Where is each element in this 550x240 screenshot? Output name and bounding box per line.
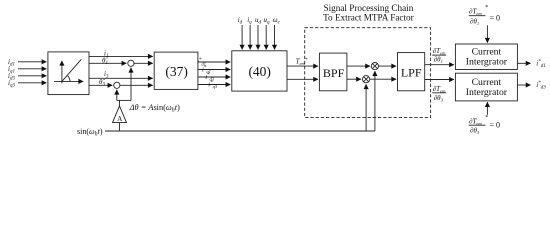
wire constraint top to CI1	[486, 25, 488, 42]
label i_d top	[238, 16, 243, 26]
svg-text:Intergrator: Intergrator	[466, 57, 508, 68]
label theta_hat_3	[99, 78, 105, 88]
svg-text:i*d1: i*d1	[536, 59, 545, 69]
summer B	[114, 82, 120, 88]
label i*_d3	[205, 73, 215, 81]
svg-text:∂θ3: ∂θ3	[470, 127, 480, 136]
block transformation U1	[48, 52, 89, 95]
wire L1 i_1	[89, 55, 153, 57]
svg-text:*: *	[485, 115, 488, 121]
wire L2 out	[134, 62, 153, 64]
wire L4 out	[120, 84, 153, 86]
icon slope line	[62, 59, 81, 81]
wire top in 1	[241, 25, 243, 50]
svg-text:∂Tem: ∂Tem	[433, 85, 446, 94]
svg-text:∂Tem: ∂Tem	[469, 118, 482, 127]
wire multB to LPF	[370, 78, 396, 80]
svg-text:BPF: BPF	[323, 66, 345, 80]
title line 1	[323, 3, 413, 13]
svg-text:∂Tem: ∂Tem	[433, 47, 446, 56]
icon angle arc	[68, 76, 70, 82]
svg-text:ud: ud	[255, 16, 262, 26]
label u_d top	[255, 16, 262, 26]
label i_1	[104, 49, 108, 59]
block (37)	[154, 52, 198, 89]
svg-text:Signal Processing Chain: Signal Processing Chain	[323, 3, 413, 13]
svg-text:ωe: ωe	[273, 16, 281, 26]
svg-text:θ̂3: θ̂3	[99, 78, 105, 88]
svg-text:Intergrator: Intergrator	[466, 87, 508, 98]
svg-text:id: id	[238, 16, 243, 26]
wire top in 5	[274, 25, 276, 50]
wire W3	[198, 76, 230, 78]
svg-text:To Extract MTPA Factor: To Extract MTPA Factor	[323, 13, 414, 23]
label sin	[77, 127, 103, 138]
wire Tem upper	[287, 65, 318, 67]
wire W1	[198, 61, 230, 63]
wire W2	[198, 69, 230, 71]
block current integrator 2	[455, 73, 517, 101]
wire W4	[198, 84, 230, 86]
input label i_q3	[8, 79, 15, 89]
fraction dTem/dtheta1	[433, 47, 446, 64]
svg-text:(37): (37)	[165, 64, 188, 79]
summer A	[128, 60, 134, 66]
wire LPF to CI1	[425, 64, 454, 66]
label i*_d1	[197, 58, 206, 66]
block current integrator 1	[455, 44, 517, 70]
wire multA to LPF	[379, 65, 397, 67]
svg-text:uq: uq	[264, 16, 271, 26]
wire BPF to multB	[347, 78, 361, 80]
input label i_q1	[8, 65, 15, 75]
label i*_q3	[208, 81, 218, 89]
wire triangle apex	[119, 100, 121, 106]
wire L3 i_3	[89, 77, 153, 79]
svg-text:i*q3: i*q3	[208, 81, 218, 89]
label dtheta equation	[129, 103, 180, 114]
wire sin to multB	[365, 84, 367, 131]
label T*_em	[296, 58, 308, 66]
multiplier A	[371, 63, 378, 70]
wire Tem lower	[287, 78, 318, 80]
svg-text:∂θ1: ∂θ1	[470, 18, 479, 27]
wire input 3	[18, 75, 46, 77]
svg-text:= 0: = 0	[490, 14, 501, 23]
block BPF	[319, 53, 347, 91]
gain triangle A	[113, 106, 127, 123]
wire dtheta to summer B	[116, 90, 118, 101]
wire BPF to multA	[347, 65, 370, 67]
svg-text:i*d3: i*d3	[536, 81, 546, 91]
wire CI2 out	[517, 84, 530, 86]
dashed processing box	[305, 28, 431, 118]
icon axes	[61, 61, 63, 84]
label theta_hat_1	[102, 56, 108, 66]
fraction dTem/dtheta3	[433, 85, 446, 102]
block (40)	[232, 51, 287, 91]
wire constraint bottom to CI2	[486, 102, 488, 115]
wire input 2	[18, 68, 46, 70]
label i_q top	[247, 16, 252, 26]
wire LPF to CI2	[425, 79, 454, 81]
label i*_d1 out	[536, 59, 545, 69]
svg-text:Δθ = Asin(ωht): Δθ = Asin(ωht)	[129, 103, 180, 114]
svg-text:A: A	[117, 115, 122, 123]
wire dtheta to summer A	[130, 68, 132, 101]
label i*_q1	[202, 66, 211, 74]
wire CI1 out	[517, 62, 530, 64]
svg-text:∂θ3: ∂θ3	[434, 94, 444, 103]
svg-text:*: *	[485, 5, 488, 11]
label i*_d3 out	[536, 81, 546, 91]
svg-text:LPF: LPF	[401, 66, 422, 80]
wire input 1	[18, 61, 46, 63]
constraint label bottom	[469, 115, 500, 135]
wire L4 theta3 to summer B	[89, 84, 112, 86]
svg-text:Tem*: Tem*	[296, 58, 308, 66]
svg-text:iq: iq	[247, 16, 252, 26]
title line 2	[323, 13, 414, 23]
label i_3	[104, 70, 109, 80]
block LPF	[398, 53, 425, 91]
wire L2 theta1 to summer A	[89, 62, 126, 64]
wire top in 2	[249, 25, 251, 50]
svg-text:∂Tem: ∂Tem	[469, 8, 482, 17]
input label i_d3	[8, 72, 15, 82]
multiplier B	[363, 76, 370, 83]
wire dtheta jog	[117, 99, 131, 101]
wire triangle input	[119, 123, 121, 131]
constraint label top	[469, 5, 500, 26]
label u_q top	[264, 16, 271, 26]
input label i_d1	[8, 58, 15, 68]
wire sin main	[105, 130, 375, 132]
label omega_e top	[273, 16, 281, 26]
wire input 4	[18, 82, 46, 84]
wire sin to multA	[374, 71, 376, 131]
wire top in 4	[265, 25, 267, 50]
svg-text:(40): (40)	[248, 64, 271, 79]
svg-text:= 0: = 0	[490, 121, 501, 130]
wire top in 3	[257, 25, 259, 50]
svg-text:∂θ1: ∂θ1	[434, 56, 443, 65]
svg-text:sin(ωht): sin(ωht)	[77, 127, 103, 138]
